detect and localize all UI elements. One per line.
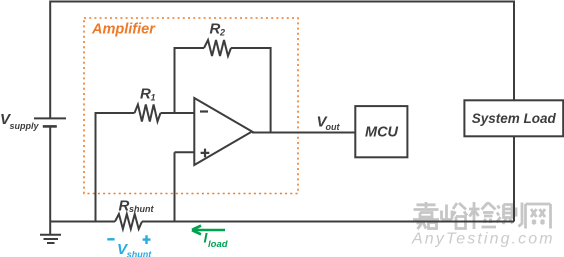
svg-text:MCU: MCU — [365, 125, 399, 141]
svg-text:R: R — [140, 86, 151, 103]
svg-text:R: R — [119, 197, 130, 214]
svg-text:load: load — [208, 239, 228, 250]
svg-text:supply: supply — [10, 121, 40, 131]
svg-text:1: 1 — [151, 92, 156, 102]
svg-text:shunt: shunt — [129, 204, 154, 214]
svg-text:AnyTesting.com: AnyTesting.com — [411, 231, 555, 248]
svg-text:R: R — [210, 20, 221, 37]
svg-text:out: out — [326, 122, 341, 132]
svg-text:2: 2 — [219, 27, 225, 37]
svg-text:shunt: shunt — [127, 250, 152, 257]
svg-text:System Load: System Load — [472, 111, 557, 126]
svg-text:Amplifier: Amplifier — [91, 22, 156, 38]
